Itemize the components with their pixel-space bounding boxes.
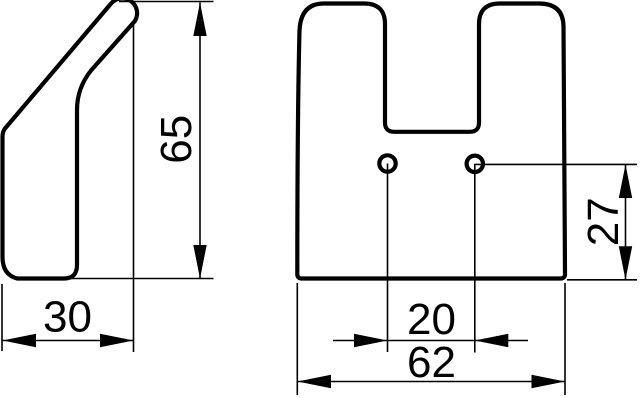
arrow right 62	[532, 375, 566, 388]
wire: left extension line of 62	[296, 283, 298, 395]
mounting hole right	[467, 156, 483, 172]
arrow left 30	[3, 334, 37, 347]
arrow up 27	[619, 165, 632, 199]
dimension line 27	[625, 165, 627, 280]
mounting hole left	[379, 155, 395, 171]
svg-text:20: 20	[407, 295, 456, 344]
dimension line 20	[333, 340, 528, 342]
wire: top extension line of 65	[119, 1, 214, 3]
wire: right extension line of 62	[564, 283, 566, 395]
svg-text:30: 30	[43, 293, 92, 342]
dimension line 62	[297, 381, 565, 383]
svg-text:62: 62	[407, 338, 456, 387]
wire: left extension line of 30	[1, 284, 3, 351]
arrow inward-left 20	[475, 334, 509, 347]
hook front view outline	[297, 4, 565, 279]
svg-text:27: 27	[579, 197, 628, 246]
wire: center line from left hole down (20 extension)	[387, 164, 389, 353]
arrow inward-right 20	[354, 334, 388, 347]
dimension line 30	[3, 340, 134, 342]
arrow left 62	[298, 375, 332, 388]
wire: bottom right extension line (27)	[567, 279, 637, 281]
wire: right extension line of 30 (from hook tip)	[133, 22, 135, 352]
hook side view outline	[3, 0, 138, 278]
arrow up 65	[193, 3, 206, 37]
dimension line 65	[199, 3, 201, 279]
wire: bottom extension line of 65	[71, 278, 214, 280]
wire: center line from right hole to the right (27 extension)	[475, 163, 637, 165]
arrow down 27	[619, 246, 632, 279]
svg-text:65: 65	[152, 115, 201, 164]
arrow down 65	[193, 245, 206, 279]
wire: center line from right hole down (20 extension)	[474, 164, 476, 353]
arrow right 30	[100, 334, 134, 347]
